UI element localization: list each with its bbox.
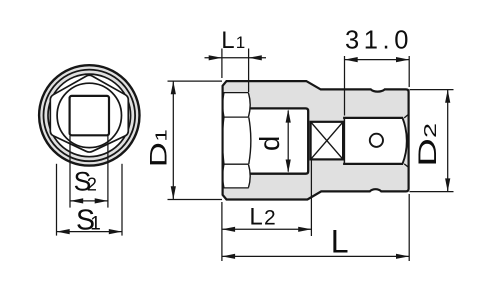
L2 extension line right [310,161,312,237]
hex recess right arcs [249,93,251,188]
31.0 extension line left [344,56,346,116]
drive cavity end dome [403,118,407,164]
drive cavity white region [344,118,406,164]
L1 dimension line with outside arrows [205,55,267,60]
pin hole [370,134,383,147]
hex recess white opening fill [224,93,250,188]
svg-text:1: 1 [153,129,170,141]
hex opening chamfer circle [48,74,131,157]
opening chamfer top [404,114,408,118]
L1 extension line right [248,49,250,93]
socket body outline [223,81,409,199]
D1 extension line bottom [168,199,223,201]
D1 extension line top [168,80,223,82]
bore top edge [250,108,308,173]
cross diagonals [311,122,344,160]
L extension line right [408,194,410,261]
svg-text:L: L [249,203,262,230]
31.0 dimension line [345,57,410,62]
svg-text:2: 2 [87,174,97,194]
hex recess horizontal line 4 [223,187,248,189]
hex recess horizontal line 1 [223,92,248,94]
square drive hole [70,96,109,135]
drive cavity left wall [343,118,345,164]
svg-text:d: d [254,136,285,151]
svg-text:1: 1 [236,33,245,52]
hex recess horizontal line 2 [223,116,248,118]
svg-text:D: D [414,138,442,167]
label D2 (rotated) [414,123,442,167]
D2 extension line top [410,89,454,91]
S2 extension line right [107,136,109,208]
bore cavity (d) white region [250,108,309,173]
L dimension line [222,254,409,259]
hex recess left arcs [222,93,224,188]
L2 dimension line [222,227,312,232]
S2 dimension line [70,198,108,203]
31.0 extension line right [408,56,410,87]
outer chamfer circle [44,70,136,162]
L2 extension line left (shared with L) [221,202,223,261]
svg-text:2: 2 [264,206,276,229]
D1 dimension line [171,81,176,199]
svg-text:2: 2 [420,123,440,138]
drive cavity bottom edge [343,163,403,165]
S1 dimension line [57,229,123,234]
hex recess horizontal line 3 [223,163,248,165]
S1 extension line right [121,164,123,236]
D2 extension line bottom [410,191,454,193]
socket outer circle [39,65,139,165]
svg-text:D: D [145,142,172,167]
L1 extension line left [221,49,223,79]
svg-text:L: L [221,27,234,54]
S2 extension line left [69,136,71,208]
d dimension arrow [286,109,291,172]
svg-text:L: L [331,223,349,259]
inner chamfer circle d [57,83,121,147]
hexagon recess [50,75,128,152]
D2 dimension line [445,90,450,192]
drive cavity top edge [343,117,403,119]
S1 extension line left [56,164,58,236]
opening chamfer bottom [404,164,408,168]
label D1 (rotated) [145,129,172,167]
svg-text:31.0: 31.0 [345,27,413,55]
svg-text:1: 1 [90,214,101,235]
square drive hole section with cross [311,122,344,160]
